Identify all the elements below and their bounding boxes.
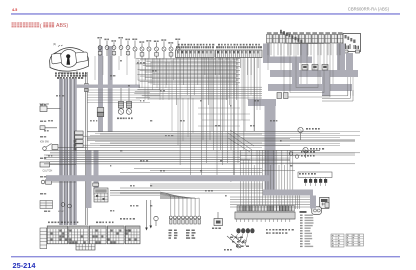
connector box R12 <box>338 35 344 44</box>
labels above blocks <box>48 222 50 224</box>
fan-out label column 2 <box>186 230 190 232</box>
left lead L2 <box>40 127 57 129</box>
mid horizontal bus lines <box>87 131 320 133</box>
strip2 dark cells <box>217 51 219 54</box>
plug leads <box>233 233 248 246</box>
tall loop rect 3 <box>296 44 318 88</box>
oval plug labels <box>230 237 233 239</box>
left horizontal bus lines <box>50 150 240 152</box>
route band Hd corner <box>248 99 276 106</box>
meter top vent marks <box>58 45 63 47</box>
connector cell row above strip <box>237 206 240 212</box>
connector pin block B4 <box>107 226 124 244</box>
inline connector marks <box>74 140 77 143</box>
abs sensor 2 <box>303 147 308 152</box>
svg-text:4P 4P: 4P 4P <box>58 211 64 213</box>
indicator lamp L4 <box>118 37 120 39</box>
battery box <box>320 197 329 208</box>
connector pin block B5 <box>125 226 140 244</box>
relay box title <box>345 35 347 38</box>
strip bottom labels <box>266 229 268 231</box>
wire harness bundle from meter <box>59 79 63 226</box>
left margin tiny labels <box>40 104 43 106</box>
route band Hb <box>270 70 358 77</box>
relay box <box>343 34 361 52</box>
lamp lead extensions <box>94 56 96 80</box>
thick route V3 <box>310 196 316 209</box>
connector box R5 <box>293 35 299 44</box>
long horizontal bus lines <box>87 131 360 133</box>
indicator lamp M6 <box>168 42 170 44</box>
fan-out connector rings <box>169 216 172 219</box>
connecting horizontals x87-134 <box>87 89 160 91</box>
field vertical wires left <box>135 58 137 85</box>
mid vertical wires <box>202 58 204 141</box>
actuator A2 <box>128 88 130 101</box>
wire color legend list <box>300 215 303 216</box>
indicator lamp L5 <box>125 39 127 41</box>
legend title <box>300 211 307 213</box>
wire pair to sub harness <box>85 72 87 225</box>
indicator lamp L1 <box>97 37 99 39</box>
starter relay rounded box <box>312 207 322 215</box>
fuse leads <box>305 178 307 180</box>
indicator lamp M3 <box>146 40 148 42</box>
thick route H3 main low band <box>46 175 271 181</box>
indicator lamp M2 <box>139 41 141 43</box>
connector box R9 <box>319 35 325 44</box>
connector box R3 <box>280 35 286 44</box>
fan-out label column 1 <box>169 230 173 232</box>
left switch S2 <box>40 162 50 167</box>
harness band B <box>108 46 113 132</box>
route band Va <box>263 44 270 58</box>
mini relay row <box>302 65 308 71</box>
left connector C1 with lead <box>40 106 47 112</box>
meter left LCD window <box>52 53 62 64</box>
strip title labels <box>178 44 180 46</box>
box row top labels <box>280 30 282 33</box>
left sensor S3 <box>41 180 45 184</box>
svg-text:CBR600RR-RA (ABS): CBR600RR-RA (ABS) <box>348 7 390 12</box>
fuse squares <box>304 179 307 183</box>
indicator lamp M5 <box>161 39 163 41</box>
indicator lamp M1 <box>132 39 134 41</box>
plug ring terminals <box>238 237 241 240</box>
combination meter cluster outline <box>50 48 89 72</box>
wire loop rectangles <box>178 98 193 145</box>
ring terminal <box>154 216 158 220</box>
route band Vd <box>292 63 299 85</box>
sub block below <box>76 244 95 250</box>
route band Ha <box>263 57 312 64</box>
connector pin block B2 <box>69 226 88 244</box>
bottom right table R <box>346 234 364 246</box>
right box drop wires <box>267 44 269 56</box>
svg-text:IGN SW: IGN SW <box>40 141 50 144</box>
horizontals into strip area <box>240 150 320 152</box>
relay label <box>212 228 214 230</box>
nested corner wires <box>322 90 353 101</box>
bundle core wires <box>60 79 62 226</box>
strip1 labels <box>176 46 178 48</box>
route band Vc <box>337 44 345 72</box>
svg-text:25-214: 25-214 <box>13 261 37 270</box>
control module block <box>94 188 108 202</box>
sensor pair lower (285-320,150-159) <box>289 152 293 156</box>
relay corner verticals <box>347 77 349 96</box>
stacked connector column <box>75 131 83 135</box>
meter coupler strip 2 <box>216 50 263 58</box>
svg-text:4-5: 4-5 <box>12 8 17 12</box>
small relay component <box>214 219 223 226</box>
band lower left continuation <box>86 150 92 208</box>
fan-out curve wires <box>160 192 171 216</box>
horizontals to battery junction <box>230 196 310 198</box>
vertical bundle before battery <box>295 190 297 209</box>
relay box bars L <box>345 44 346 50</box>
legend mini table <box>40 228 47 249</box>
route band Vb <box>300 44 308 58</box>
fuse bracket outline <box>298 172 332 178</box>
connector box R4 <box>286 35 292 44</box>
meter connector pin label text block <box>55 72 57 74</box>
header rule <box>11 13 400 15</box>
connector plugs under corner <box>277 93 282 99</box>
scattered wire labels <box>137 62 139 64</box>
connector box R11 <box>332 35 338 44</box>
connector pin block B1 <box>47 226 67 244</box>
svg-text:(4): (4) <box>53 42 56 46</box>
connector box R10 <box>325 35 331 44</box>
connector box R8 <box>312 35 318 44</box>
ground wire 2 <box>150 200 152 226</box>
coupler drop wires <box>176 58 178 106</box>
field horizontals lower <box>139 86 262 88</box>
diagonal cross wires <box>228 133 252 150</box>
meter right LCD window <box>76 52 88 63</box>
center vertical harness wires <box>240 150 242 210</box>
svg-text:(: ( <box>40 23 42 29</box>
inline connector on pair <box>85 84 89 89</box>
crossband under meter <box>77 85 141 88</box>
indicator lamp M4 <box>154 41 156 43</box>
svg-text:CLUTCH: CLUTCH <box>43 170 53 173</box>
meter coupler strip 1 <box>176 50 215 58</box>
diagram title 電子儀錶(配備 ABS) <box>12 22 17 27</box>
fan feeder horizontals <box>110 190 160 192</box>
route band Ve relay drop <box>346 53 353 71</box>
connector box R7 <box>306 35 312 44</box>
thick route H4 <box>263 190 313 196</box>
relay box bars R <box>354 45 355 49</box>
strip2 labels <box>216 46 218 48</box>
sensor labels <box>306 128 308 130</box>
footer rule <box>11 256 400 257</box>
meter needle hub <box>66 54 70 58</box>
table L cell text <box>332 235 334 236</box>
long multipin strip <box>235 212 295 219</box>
route band Hc <box>268 84 352 91</box>
bottom right table L <box>331 234 344 247</box>
tall loop rect 1 <box>284 44 330 98</box>
dense horizontal wire field <box>136 58 240 60</box>
4P connector circles <box>61 203 65 207</box>
side stand switch diagonals <box>227 236 241 248</box>
svg-text:ABS): ABS) <box>56 23 68 29</box>
strip1 dark cells <box>177 51 179 54</box>
indicator lamp M7 <box>175 39 177 41</box>
table R cell text <box>347 235 349 236</box>
abs sensor 1 <box>298 127 303 132</box>
right box drops extend <box>267 44 269 71</box>
indicator lamp L3 <box>111 40 113 42</box>
meter speedometer dial <box>60 50 78 68</box>
route band Vf <box>322 77 330 96</box>
small table above connector row <box>40 201 53 209</box>
actuator A1 <box>120 88 122 101</box>
connector box R6 <box>299 35 305 44</box>
round connector plugs dark <box>236 228 240 233</box>
relay box feet <box>344 50 348 53</box>
actuator labels <box>117 118 119 120</box>
ignition switch symbol <box>43 147 47 151</box>
small icon above tables <box>325 203 329 208</box>
tall loop rect 2 <box>290 44 324 93</box>
meter bottom tab <box>60 71 77 73</box>
strip bottom pins <box>236 219 238 222</box>
mid sparse horizontals <box>198 107 240 109</box>
harness band A <box>98 46 103 132</box>
ground wire 1 <box>146 200 148 228</box>
inline connector pair C <box>93 183 99 186</box>
inline connector pair on band A <box>97 108 104 113</box>
lower mid horizontals <box>134 168 262 170</box>
connector pin block B3 <box>89 226 106 244</box>
indicator lamp L2 <box>104 39 106 41</box>
connector box R1 <box>267 35 273 44</box>
route band V2 main down <box>265 99 276 196</box>
upper center verticals <box>241 58 243 121</box>
connector box R2 <box>273 35 279 44</box>
